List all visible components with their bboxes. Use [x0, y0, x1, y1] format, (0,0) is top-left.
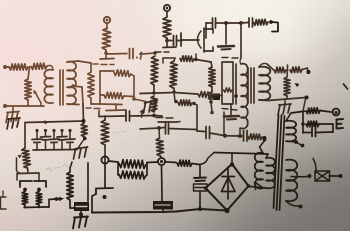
- switch SW1 lever: [313, 159, 316, 173]
- resistor R14: [198, 92, 211, 98]
- node A1: [104, 51, 108, 55]
- resistor R1: [102, 28, 111, 50]
- node BL2: [79, 213, 83, 217]
- ground GND4: [12, 106, 14, 112]
- wire: [214, 153, 268, 155]
- jack J3: [333, 109, 340, 116]
- resistor R8: [31, 63, 47, 69]
- pot P1 wiper: [35, 92, 41, 103]
- node M8: [192, 102, 196, 106]
- wire: [205, 23, 207, 38]
- wire: [140, 93, 174, 94]
- label .1: [136, 57, 138, 59]
- ground GND3: [75, 147, 88, 149]
- wire: [153, 85, 155, 92]
- transformer TR2 secondary: [259, 67, 270, 100]
- wire: [5, 105, 44, 107]
- wire: [174, 92, 175, 101]
- jack J5: [158, 158, 165, 165]
- wire: [161, 165, 164, 200]
- wire: [99, 71, 101, 104]
- tube V2 grid: [180, 33, 182, 46]
- wire: [195, 54, 197, 59]
- wire: [80, 211, 82, 216]
- wire: [166, 42, 168, 47]
- resistor R7: [9, 64, 28, 70]
- node TR3c: [299, 205, 303, 209]
- wire: [303, 99, 306, 111]
- rectifier bridge: [206, 164, 249, 211]
- wire: [240, 23, 242, 58]
- wire: [260, 142, 265, 154]
- capacitor C10: [125, 111, 127, 121]
- tube V1 envelope: [93, 63, 98, 65]
- node N1: [224, 21, 228, 25]
- wire: [225, 135, 239, 137]
- resistor R4: [88, 72, 94, 98]
- pot P3 wiper: [18, 155, 22, 159]
- wire: [192, 164, 199, 165]
- wire: [223, 112, 225, 135]
- capacitor C2: [212, 18, 214, 28]
- terminal T1: [3, 65, 7, 69]
- label .1b: [137, 115, 139, 117]
- node R1b: [305, 96, 309, 100]
- wire: [105, 50, 107, 53]
- wire: [131, 74, 134, 76]
- resistor R17: [248, 134, 262, 140]
- ground GND8: [8, 118, 20, 119]
- tube V3 box: [222, 62, 233, 104]
- resistor R5: [114, 70, 131, 77]
- node D1: [230, 162, 234, 166]
- wire: [241, 22, 248, 25]
- wire: [17, 172, 39, 175]
- wire: [106, 23, 108, 29]
- wire: [239, 128, 241, 136]
- node D4: [224, 208, 229, 213]
- resistor R12: [170, 61, 178, 88]
- wire: [211, 102, 212, 112]
- wire: [330, 175, 340, 177]
- resistor R2: [163, 17, 171, 38]
- node D2: [204, 186, 208, 190]
- resistor R3: [254, 19, 269, 25]
- wire: [259, 63, 267, 67]
- wire: [104, 145, 106, 157]
- wire: [256, 183, 264, 190]
- wire: [25, 121, 84, 123]
- node A2: [153, 51, 157, 55]
- node B1: [165, 39, 169, 43]
- node BL1: [55, 197, 59, 201]
- capacitor C6: [205, 127, 207, 139]
- tube V4: [96, 187, 113, 190]
- wire: [319, 123, 333, 125]
- wire: [286, 141, 295, 142]
- ground GND1: [218, 45, 234, 48]
- transformer TR2 primary: [241, 64, 248, 129]
- resistor R15b: [208, 92, 214, 100]
- wire: [250, 187, 266, 189]
- node M7: [174, 100, 178, 104]
- node SW1a: [308, 174, 312, 178]
- node V1k: [132, 97, 136, 101]
- wire: [166, 38, 168, 40]
- tube V5a: [20, 180, 32, 182]
- wire: [177, 40, 183, 42]
- wire: [316, 131, 334, 134]
- wire: [82, 104, 85, 121]
- wire: [99, 115, 125, 118]
- wire: [197, 130, 204, 133]
- ground GND6: [284, 99, 286, 104]
- wire: [302, 68, 308, 73]
- wire: [47, 66, 53, 71]
- mark: [344, 84, 348, 89]
- wire: [211, 94, 222, 97]
- wire: [286, 112, 302, 122]
- capacitor C2a: [129, 49, 131, 59]
- resistor R24: [156, 138, 164, 156]
- choke L1: [266, 158, 275, 189]
- wire: [199, 191, 201, 209]
- wire: [100, 94, 104, 96]
- capacitor C5: [213, 94, 221, 101]
- wire: [169, 129, 198, 130]
- node M2: [152, 114, 156, 118]
- transformer TR1 secondary: [67, 62, 76, 105]
- transformer TR3 core: [274, 115, 279, 208]
- resistor R21: [306, 121, 319, 127]
- wire: [69, 200, 71, 208]
- ground GND2: [145, 100, 158, 103]
- potentiometer P1: [28, 67, 30, 79]
- resistor R20: [306, 108, 320, 114]
- terminal J1: [104, 17, 110, 23]
- node M4: [194, 58, 198, 62]
- component X1: [1, 197, 7, 209]
- wire: [268, 98, 306, 101]
- node M6: [210, 111, 214, 115]
- transformer TR3 left winding: [255, 153, 263, 189]
- wire: [130, 115, 154, 118]
- tube V2 envelope: [156, 51, 161, 53]
- jack J4: [101, 156, 108, 163]
- resistor R9: [81, 123, 87, 137]
- node B1: [223, 134, 227, 138]
- potentiometer P2: [286, 70, 289, 77]
- wire: [286, 201, 299, 206]
- wire: [5, 66, 9, 68]
- pot P2 wiper: [295, 83, 300, 87]
- node B2: [238, 134, 242, 138]
- node M5: [209, 100, 213, 104]
- node K1a: [339, 174, 343, 178]
- wire: [287, 65, 289, 70]
- node TR1tap: [71, 84, 75, 88]
- wire: [24, 205, 26, 208]
- node M3: [172, 90, 176, 94]
- wire: [104, 164, 106, 189]
- resistor R29: [67, 172, 73, 200]
- node TR3b: [301, 144, 305, 148]
- resistor R10: [151, 56, 159, 85]
- resistor R6: [104, 92, 124, 99]
- capacitor C11: [165, 122, 167, 134]
- wire: [142, 52, 153, 55]
- resistor R28: [36, 192, 42, 206]
- wire: [92, 194, 96, 213]
- node B3: [263, 136, 267, 140]
- node CB0: [82, 119, 86, 123]
- wire: [216, 22, 241, 24]
- wire: [259, 99, 268, 102]
- wire: [140, 128, 159, 129]
- node N2: [239, 21, 243, 25]
- node TR3a: [294, 140, 298, 144]
- transformer TR1 primary: [44, 70, 53, 103]
- wire: [147, 161, 158, 164]
- potentiometer P3: [24, 123, 26, 149]
- capacitor C8: [311, 128, 313, 137]
- node V3a: [234, 94, 238, 98]
- wire: [163, 57, 175, 59]
- wire: [166, 11, 168, 17]
- wire: [27, 168, 30, 173]
- wire: [302, 111, 304, 133]
- wire: [100, 103, 122, 106]
- diode D5: [227, 167, 229, 199]
- tube V3 envelope: [222, 57, 228, 59]
- node D3: [247, 184, 251, 188]
- resistor R25: [119, 160, 146, 169]
- tube V5b: [34, 180, 46, 182]
- wire: [67, 61, 78, 62]
- wire: [87, 163, 89, 201]
- wire: [109, 161, 119, 162]
- resistor R5b: [224, 88, 233, 92]
- node C9a: [198, 207, 202, 211]
- node C11a: [157, 126, 161, 130]
- node N3: [269, 20, 273, 24]
- wire: [206, 22, 212, 24]
- terminal T2: [3, 104, 7, 108]
- wire bus: [92, 209, 227, 213]
- capacitor C3: [248, 18, 250, 27]
- capacitor C12: [153, 201, 173, 210]
- wire: [231, 154, 233, 163]
- wire: [106, 53, 127, 56]
- wire: [77, 139, 85, 150]
- capacitor C9 box: [194, 184, 208, 191]
- resistor R19: [290, 67, 302, 73]
- wire: [271, 22, 278, 32]
- wire: [291, 176, 308, 178]
- node J3a: [301, 122, 305, 126]
- resistor R16: [180, 56, 194, 62]
- tube V2: [198, 31, 202, 48]
- resistor R13: [178, 100, 192, 106]
- tube V2 envelope2: [156, 117, 163, 119]
- ground GND5: [230, 104, 232, 115]
- transformer TR3 lower winding: [286, 160, 297, 202]
- battery E1: [336, 120, 338, 129]
- transformer TR3 upper winding: [286, 121, 296, 142]
- ground GND7: [74, 217, 88, 218]
- wire: [161, 200, 163, 201]
- wire: [210, 133, 225, 136]
- wire: [117, 162, 119, 175]
- capacitor C7: [243, 131, 245, 142]
- capacitor C13: [74, 202, 89, 211]
- node CB1: [83, 137, 87, 141]
- resistor R27: [22, 192, 28, 206]
- wire: [225, 23, 227, 44]
- capacitor C1: [173, 36, 175, 46]
- relay K1: [315, 171, 330, 181]
- capacitor bank C14: [35, 129, 38, 132]
- wire: [33, 149, 77, 152]
- node TR3d: [263, 138, 267, 142]
- wire: [194, 104, 197, 106]
- terminal J2: [164, 5, 170, 11]
- resistor R23: [101, 120, 109, 145]
- resistor R18: [274, 67, 286, 73]
- transformer TR2 core: [247, 68, 249, 103]
- wire: [134, 99, 146, 102]
- wire: [173, 88, 175, 92]
- capacitor C9: [199, 165, 201, 178]
- wire: [320, 111, 331, 113]
- resistor R15a: [209, 67, 215, 87]
- arrow A1: [44, 120, 49, 124]
- wire: [67, 103, 79, 106]
- resistor R26: [119, 171, 146, 179]
- node R1a: [307, 70, 311, 74]
- resistor R11: [151, 96, 157, 112]
- wire: [303, 132, 311, 134]
- pencil marks: [46, 165, 74, 171]
- resistor R22: [177, 160, 192, 166]
- tube V1 cathode: [115, 104, 117, 110]
- arrow A2: [59, 197, 64, 202]
- node M1: [152, 91, 156, 95]
- transformer TR1 core: [59, 70, 61, 105]
